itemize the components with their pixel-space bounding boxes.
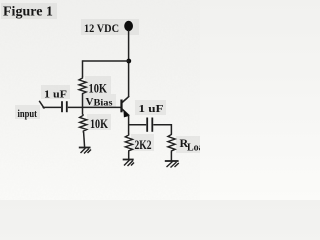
transistor Q1 <box>120 96 129 117</box>
supply terminal dot <box>124 21 133 31</box>
svg-text:1 uF: 1 uF <box>139 103 164 115</box>
scan halo patches behind labels <box>1 3 200 153</box>
wire: supply rail down from dot to collector <box>128 30 130 97</box>
svg-text:Figure 1: Figure 1 <box>3 5 53 20</box>
wire: emitter junction to C2 <box>129 124 147 126</box>
wire: C1 to base (through VBias node) <box>68 106 121 108</box>
capacitor C2 1uF (output) <box>147 118 152 132</box>
wire: R3 to ground <box>170 152 172 161</box>
resistor R1 10K (upper) <box>79 77 86 96</box>
wire: input to C1 <box>43 106 62 108</box>
ground (divider) <box>79 148 91 154</box>
svg-text:1 uF: 1 uF <box>44 89 67 101</box>
svg-text:Bias: Bias <box>94 98 114 108</box>
svg-text:V: V <box>86 96 94 108</box>
ground (load) <box>165 161 179 168</box>
wire: divider rail down to R1 <box>82 60 84 77</box>
capacitor C1 1uF <box>62 101 67 112</box>
wire: C2 to load rail <box>153 125 171 134</box>
wire: 2K2 to ground <box>128 152 130 160</box>
svg-text:input: input <box>18 108 38 120</box>
svg-text:Load: Load <box>187 143 200 154</box>
resistor R3 R-Load <box>168 133 175 153</box>
resistor R4 2K2 <box>125 134 132 153</box>
wire: emitter rail down to 2K2 <box>128 115 130 134</box>
svg-text:10K: 10K <box>90 116 109 131</box>
resistor R2 10K (lower) <box>80 114 87 133</box>
svg-text:10K: 10K <box>89 81 108 96</box>
node junction dot on supply rail <box>126 59 131 64</box>
wire: horizontal from supply rail to divider <box>83 60 130 62</box>
ground (emitter) <box>123 160 134 167</box>
svg-text:12 VDC: 12 VDC <box>84 21 119 35</box>
svg-text:2K2: 2K2 <box>135 137 152 152</box>
wire: R2 bottom to ground <box>84 132 85 148</box>
wire: R1 bottom to VBias node and on to R2 <box>82 95 84 115</box>
input terminal tick <box>39 101 44 109</box>
